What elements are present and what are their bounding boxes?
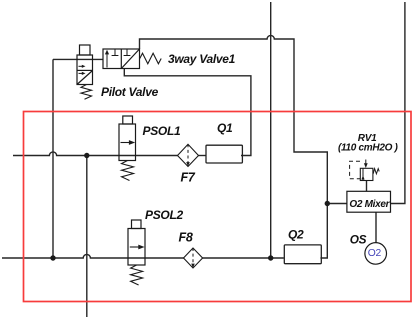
wire: F8 to Q2 xyxy=(203,257,284,259)
wire: pilot feed vertical drop x53 xyxy=(52,59,54,258)
wire: Q1 right up to 3way valve bottom port xyxy=(124,69,251,156)
wire: supply line left to PSOL1 and F7 (hop over x53) xyxy=(13,152,178,156)
svg-text:PSOL1: PSOL1 xyxy=(143,124,181,138)
RV1 body box xyxy=(360,168,373,180)
PSOL1 solenoid box xyxy=(123,116,133,124)
filter F7 diamond xyxy=(178,144,199,166)
wire: RV1 to mixer top xyxy=(366,181,368,192)
3way valve left-cell blocked port T xyxy=(112,50,119,56)
svg-text:PSOL2: PSOL2 xyxy=(145,208,183,222)
svg-text:3way Valve1: 3way Valve1 xyxy=(168,52,236,66)
3way valve right-cell blocked port T xyxy=(124,50,131,56)
RV1 top vent arrow xyxy=(364,160,368,169)
svg-text:Q1: Q1 xyxy=(217,121,233,135)
wire: vertical air line x270.7 xyxy=(270,2,272,258)
svg-text:F8: F8 xyxy=(179,230,193,244)
F7 dashed element xyxy=(187,144,189,162)
3way valve body xyxy=(103,49,140,69)
PSOL2 solenoid box xyxy=(132,220,142,229)
pilot valve spring xyxy=(81,85,92,100)
flow sensor Q2 box xyxy=(284,245,321,264)
svg-text:F7: F7 xyxy=(181,171,196,185)
RV1 inner poppet line xyxy=(362,168,364,180)
PSOL2 spring xyxy=(131,265,143,285)
svg-text:OS: OS xyxy=(350,232,367,246)
wire: F7 to Q1 xyxy=(199,155,207,157)
junction node at x270.7 bottom line xyxy=(268,255,273,260)
valve PSOL2 body xyxy=(128,229,145,266)
3way valve left-cell flow arrow xyxy=(105,50,109,68)
PSOL1 flow arrow xyxy=(121,140,136,145)
svg-text:Q2: Q2 xyxy=(288,227,304,241)
RV1 inner arrowhead xyxy=(361,176,364,180)
junction node at mixer left xyxy=(325,201,330,206)
O2 mixer box xyxy=(347,191,391,212)
wire: pilot valve feed horizontal xyxy=(53,58,103,60)
PSOL2 flow arrow xyxy=(130,245,145,250)
red boundary box xyxy=(24,112,412,302)
wire: branch vertical x86.8 down past bottom xyxy=(86,156,88,318)
3way valve return spring xyxy=(140,53,161,64)
wire: 3way valve top port to mixer column (hop over x270.7) xyxy=(140,35,328,258)
pilot valve solenoid box xyxy=(80,45,91,55)
wire: bottom supply line left to F8 (hop over x86.8) xyxy=(2,254,184,258)
svg-text:O2: O2 xyxy=(368,248,382,259)
flow sensor Q1 box xyxy=(206,145,242,163)
svg-text:O2 Mixer: O2 Mixer xyxy=(349,199,390,210)
wire: mixer bottom to O2 sensor xyxy=(375,212,377,242)
svg-text:Pilot Valve: Pilot Valve xyxy=(101,85,159,99)
pilot valve body xyxy=(77,55,93,85)
pilot valve bottom-cell arrow xyxy=(79,72,84,74)
wire: junction to mixer left xyxy=(327,203,347,205)
F8 dashed element with arrow xyxy=(192,248,194,264)
PSOL1 spring xyxy=(122,161,134,181)
O2 sensor OS circle xyxy=(365,243,387,265)
svg-text:(110 cmH2O ): (110 cmH2O ) xyxy=(338,142,399,153)
wire: vertical O2 line x404.9 to mixer right xyxy=(391,2,405,204)
junction node at x86.8 top line xyxy=(84,153,89,158)
filter F8 diamond xyxy=(184,248,203,268)
valve PSOL1 body xyxy=(119,124,136,161)
junction node at x53 bottom line xyxy=(50,255,55,260)
pilot valve top-cell arrow xyxy=(79,65,86,75)
RV1 spring xyxy=(373,169,379,174)
relief valve RV1 dashed pilot box xyxy=(350,161,360,178)
